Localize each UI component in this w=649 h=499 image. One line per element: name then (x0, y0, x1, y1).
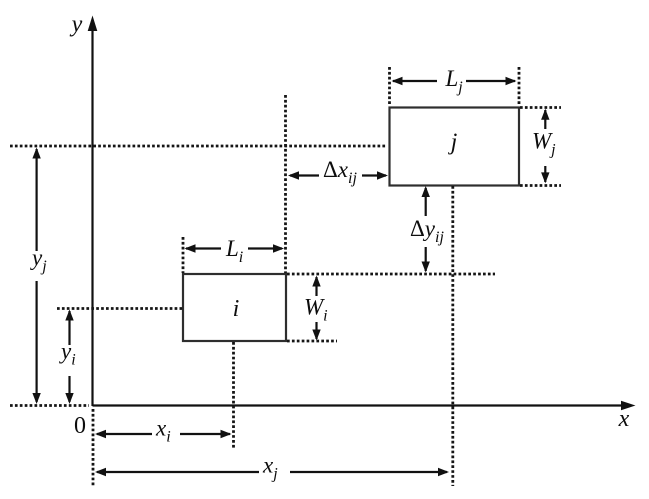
dimension L_i arrow (185, 244, 285, 252)
dotted vertical below origin (92, 409, 95, 487)
dimension y_i arrow (65, 310, 73, 405)
y-axis (88, 16, 98, 407)
dotted y_i level line (57, 307, 184, 310)
dotted rect-j right edge extended up (518, 67, 521, 106)
dimension x_j arrow (95, 468, 449, 476)
module rectangle i (183, 274, 286, 341)
dimension W_j arrow (541, 109, 549, 184)
svg-text:0: 0 (74, 413, 86, 439)
dotted rect-j bottom edge extended right (520, 184, 561, 187)
dotted x-axis extension left of origin (10, 404, 89, 407)
module rectangle j (390, 108, 520, 186)
dimension y_j arrow (32, 148, 40, 405)
dotted x_i vertical line (232, 342, 235, 448)
dimension L_j arrow (392, 77, 517, 85)
dotted x_j vertical line (451, 186, 454, 486)
dotted rect-j left edge extended up (388, 67, 391, 106)
dotted rect-i left edge extended up (182, 237, 185, 273)
svg-text:x: x (618, 406, 630, 432)
dotted construction lines (10, 67, 561, 487)
dimension delta-x_ij arrow (288, 171, 388, 179)
dotted y_j level line (10, 145, 387, 148)
dotted rect-i right edge extended up (284, 95, 287, 273)
dimension W_i arrow (312, 276, 320, 341)
dotted rect-i bottom edge extended right (287, 340, 337, 343)
svg-text:y: y (70, 12, 83, 38)
dimension delta-y_ij arrow (422, 186, 430, 273)
svg-text:i: i (233, 296, 240, 322)
x-axis (93, 401, 636, 411)
dotted rect-i top edge extended right (287, 273, 495, 276)
dotted rect-j top edge extended right (520, 106, 561, 109)
dimension x_i arrow (95, 430, 232, 438)
